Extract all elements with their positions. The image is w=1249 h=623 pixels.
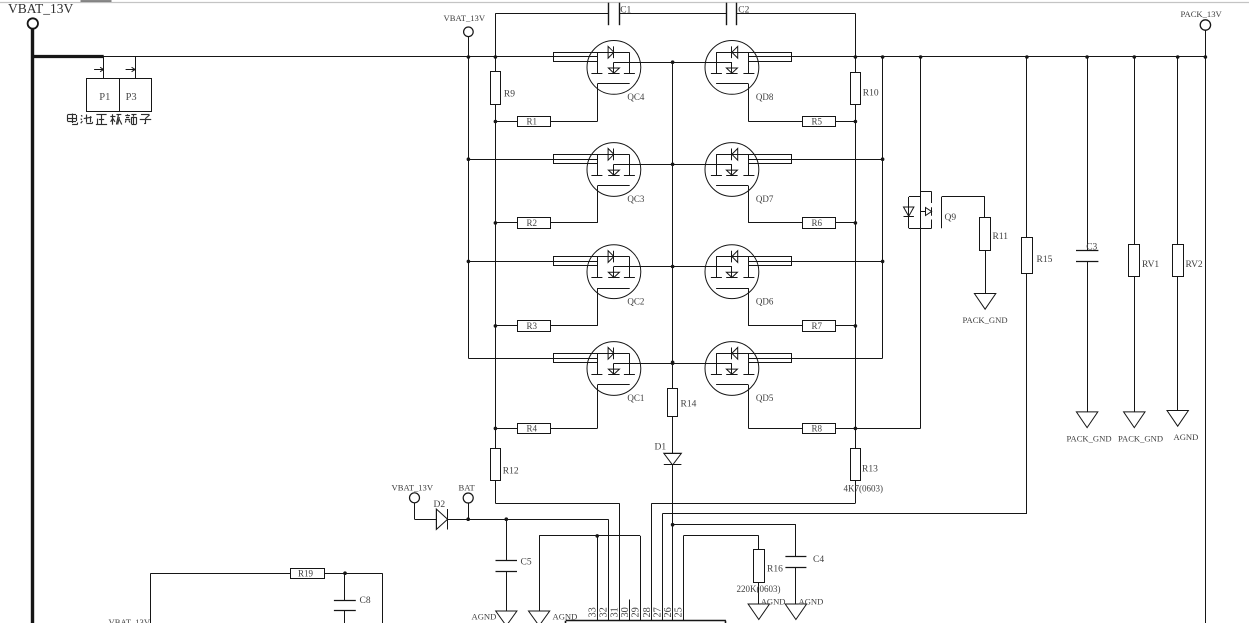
- svg-text:C1: C1: [620, 6, 631, 16]
- svg-text:VBAT_13V: VBAT_13V: [8, 1, 74, 16]
- svg-text:32: 32: [599, 607, 610, 617]
- svg-text:PACK_13V: PACK_13V: [1181, 9, 1223, 19]
- svg-text:QC4: QC4: [627, 92, 645, 102]
- svg-text:P1: P1: [99, 92, 110, 103]
- svg-text:D1: D1: [655, 443, 667, 453]
- svg-text:PACK_GND: PACK_GND: [963, 315, 1008, 325]
- svg-text:AGND: AGND: [1174, 432, 1199, 442]
- svg-text:R6: R6: [812, 218, 823, 228]
- svg-text:33: 33: [587, 607, 598, 617]
- svg-text:220K(0603): 220K(0603): [737, 584, 781, 594]
- svg-text:R5: R5: [812, 117, 823, 127]
- svg-text:QC2: QC2: [627, 296, 644, 306]
- svg-text:R3: R3: [527, 321, 538, 331]
- svg-text:R8: R8: [812, 424, 823, 434]
- svg-text:25: 25: [674, 607, 685, 617]
- svg-text:VBAT_13V: VBAT_13V: [444, 13, 486, 23]
- svg-text:QC3: QC3: [627, 194, 645, 204]
- svg-text:31: 31: [610, 607, 621, 617]
- svg-text:C3: C3: [1086, 243, 1097, 253]
- svg-text:RV1: RV1: [1142, 260, 1159, 270]
- svg-text:29: 29: [630, 607, 641, 617]
- svg-text:R2: R2: [527, 218, 538, 228]
- svg-text:R12: R12: [503, 467, 519, 477]
- svg-text:AGND: AGND: [761, 596, 786, 606]
- svg-text:QD6: QD6: [756, 296, 774, 306]
- svg-text:R4: R4: [527, 424, 538, 434]
- svg-text:R7: R7: [812, 321, 823, 331]
- svg-text:QD8: QD8: [756, 92, 774, 102]
- svg-text:R10: R10: [863, 89, 879, 99]
- svg-text:28: 28: [642, 607, 653, 617]
- svg-text:QD7: QD7: [756, 194, 774, 204]
- svg-text:RV2: RV2: [1186, 260, 1203, 270]
- svg-text:4K7(0603): 4K7(0603): [844, 484, 884, 494]
- svg-text:C5: C5: [521, 558, 532, 568]
- svg-text:QC1: QC1: [627, 393, 644, 403]
- svg-text:VBAT_13V: VBAT_13V: [392, 483, 434, 493]
- svg-text:R9: R9: [504, 90, 515, 100]
- svg-text:AGND: AGND: [553, 612, 578, 622]
- svg-text:VBAT_13V: VBAT_13V: [109, 617, 151, 623]
- svg-text:C4: C4: [813, 555, 824, 565]
- svg-text:R13: R13: [862, 465, 878, 475]
- svg-text:AGND: AGND: [799, 596, 824, 606]
- svg-text:R14: R14: [681, 399, 697, 409]
- svg-text:P3: P3: [126, 92, 137, 103]
- svg-text:BAT: BAT: [459, 483, 476, 493]
- svg-text:26: 26: [663, 607, 674, 617]
- svg-text:C2: C2: [738, 6, 749, 16]
- svg-text:Q9: Q9: [945, 213, 957, 223]
- svg-text:PACK_GND: PACK_GND: [1118, 433, 1163, 443]
- svg-text:C8: C8: [360, 596, 371, 606]
- svg-text:R19: R19: [298, 568, 314, 578]
- svg-text:QD5: QD5: [756, 393, 774, 403]
- svg-text:AGND: AGND: [472, 612, 497, 622]
- svg-text:R15: R15: [1037, 255, 1053, 265]
- svg-text:R11: R11: [993, 232, 1009, 242]
- svg-text:R16: R16: [767, 565, 783, 575]
- svg-text:D2: D2: [434, 500, 446, 510]
- svg-text:PACK_GND: PACK_GND: [1067, 433, 1112, 443]
- svg-text:R1: R1: [527, 117, 538, 127]
